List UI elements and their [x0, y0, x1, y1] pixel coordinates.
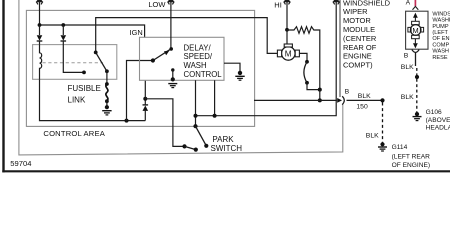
- relay coil: [40, 45, 42, 80]
- park switch blade: [196, 126, 207, 146]
- svg-text:COMPT): COMPT): [343, 61, 373, 70]
- wire: delay box pin down to junction: [144, 80, 146, 99]
- svg-text:B: B: [404, 53, 409, 60]
- connector fork below washer: [412, 50, 419, 66]
- node relay fixed contact: [82, 71, 86, 75]
- wire LOW with arrow: [170, 0, 172, 49]
- node junction dot at x63.3: [61, 23, 65, 27]
- svg-text:HEADLAMP: HEADLAMP: [426, 125, 450, 132]
- wire down to B wire: [319, 90, 321, 101]
- node relay common: [94, 51, 98, 55]
- ground G114: [380, 142, 384, 146]
- delay switch blade with arrow: [153, 49, 171, 60]
- svg-text:RESE: RESE: [432, 55, 448, 61]
- wire: coil bottom down, across to diode branch: [40, 79, 146, 120]
- wire: relay common up and over to motor: [96, 18, 278, 54]
- node resistor/park junction: [318, 88, 322, 92]
- svg-text:CONTROL: CONTROL: [184, 70, 223, 79]
- svg-text:MOTOR: MOTOR: [343, 16, 371, 25]
- wire: park run to module arrow: [196, 0, 337, 116]
- svg-text:(ABOVE LE: (ABOVE LE: [426, 117, 450, 124]
- relay box: [33, 45, 117, 80]
- label WINDSHIELD WIPER MOTOR MODULE: [343, 0, 391, 70]
- svg-text:DELAY/: DELAY/: [184, 43, 212, 52]
- svg-text:REAR OF: REAR OF: [343, 43, 377, 52]
- park switch feed wires from delay box: [195, 80, 197, 126]
- svg-text:HI: HI: [274, 1, 282, 10]
- ground G106: [415, 112, 419, 116]
- ground below fusible link: [106, 101, 108, 107]
- node HI junction: [285, 28, 289, 32]
- connector symbol: [342, 96, 344, 105]
- svg-text:WIPER: WIPER: [343, 7, 368, 16]
- park resting contact link: [185, 146, 196, 149]
- svg-text:WASH: WASH: [432, 49, 449, 55]
- module text separator line: [339, 0, 341, 97]
- wire: bus to IGN corner into delay box: [40, 25, 145, 38]
- svg-text:PUMP: PUMP: [432, 24, 448, 30]
- outer gray box CONTROL AREA boundary: [19, 0, 343, 155]
- wire B exits module: [254, 99, 337, 101]
- node park wire junction 1: [194, 114, 198, 118]
- svg-text:150: 150: [356, 104, 368, 111]
- node park wire junction 2: [213, 114, 217, 118]
- svg-text:SWITCH: SWITCH: [211, 144, 243, 153]
- node park switch pivot: [193, 124, 197, 128]
- relay switch blade: [96, 52, 107, 71]
- svg-text:BLK: BLK: [401, 64, 414, 71]
- page bottom border bar: [2, 170, 450, 172]
- svg-text:LOW: LOW: [148, 0, 166, 9]
- resistor: [287, 27, 320, 90]
- svg-text:(CENTER: (CENTER: [343, 34, 377, 43]
- diode D2 (anode top): [62, 25, 64, 35]
- node delay switch upper contact: [169, 47, 173, 51]
- label WINDSHIELD WASHER PUMP (right column): [432, 11, 450, 60]
- red wire stub: [414, 0, 416, 6]
- dashed wire down to G114: [382, 103, 384, 143]
- node park blade end: [204, 144, 208, 148]
- svg-text:MODULE: MODULE: [343, 25, 375, 34]
- wire: feed bus with arrow up (left): [39, 0, 41, 25]
- park switch arc in motor: [305, 60, 309, 64]
- svg-text:M: M: [412, 26, 418, 35]
- node splice on washer ground wire: [415, 75, 419, 79]
- relay mechanical dashed link: [43, 62, 104, 64]
- wire: delay switch pivot to junction: [127, 61, 153, 121]
- ground inside delay box: [172, 70, 174, 79]
- node park contact B: [194, 148, 198, 152]
- svg-text:59704: 59704: [10, 159, 31, 168]
- svg-text:OF ENGINE): OF ENGINE): [392, 162, 430, 169]
- wire arc bottom to resistor leg: [307, 83, 320, 90]
- svg-text:A: A: [406, 0, 411, 7]
- washer internal wire up arrow: [414, 17, 416, 21]
- inner gray box control module boundary: [26, 10, 254, 126]
- delay/speed/wash control box: [140, 37, 225, 80]
- fusible link: [105, 82, 109, 86]
- svg-text:BLK: BLK: [401, 94, 414, 101]
- svg-text:G106: G106: [426, 109, 442, 116]
- wire: delay box right to ground: [224, 63, 240, 73]
- ground right of delay box: [238, 71, 242, 75]
- diode D1 (anode top): [39, 25, 41, 35]
- svg-text:BLK: BLK: [366, 132, 379, 139]
- svg-text:WASHER: WASHER: [432, 18, 450, 24]
- wire HI with arrow: [286, 0, 288, 44]
- washer motor M: [412, 21, 420, 24]
- svg-text:(LEFT REAR: (LEFT REAR: [392, 153, 431, 160]
- svg-text:COMP: COMP: [432, 42, 449, 48]
- node B wire junction: [318, 98, 322, 102]
- washer pump box: [406, 11, 428, 49]
- svg-text:(LEFT: (LEFT: [432, 30, 448, 36]
- svg-text:IGN: IGN: [130, 28, 143, 37]
- svg-text:FUSIBLE: FUSIBLE: [68, 84, 101, 93]
- diode D3 (pointing up): [144, 111, 146, 121]
- connector chevron at washer terminal A: [413, 6, 419, 9]
- svg-text:LINK: LINK: [68, 96, 86, 105]
- arrow head right at module boundary: [337, 98, 342, 103]
- node relay contact to fusible link: [105, 69, 109, 73]
- svg-text:OF EN: OF EN: [432, 36, 449, 42]
- wire from connector to splice: [347, 99, 383, 101]
- arrow head (cut wire up): [36, 0, 43, 2]
- wire: contact down to fusible link: [106, 71, 108, 84]
- wire: D2 cathode to relay contact: [63, 41, 84, 72]
- page left border bar: [2, 0, 4, 172]
- node park contact A: [182, 144, 186, 148]
- svg-text:CONTROL AREA: CONTROL AREA: [43, 129, 105, 138]
- svg-text:BLK: BLK: [358, 93, 371, 100]
- node delay switch pivot: [151, 58, 155, 62]
- wire motor right tab to park arc: [299, 53, 307, 61]
- svg-text:G114: G114: [392, 144, 408, 151]
- svg-text:WASH: WASH: [184, 61, 207, 70]
- node junction under delay box: [143, 97, 147, 101]
- svg-text:M: M: [285, 50, 292, 59]
- node splice: [380, 98, 384, 102]
- node junction dot at x39.5: [38, 23, 42, 27]
- wiper motor M: [282, 47, 296, 61]
- dashed wire to G106: [416, 68, 418, 113]
- svg-text:PARK: PARK: [212, 135, 234, 144]
- svg-text:B: B: [345, 89, 350, 96]
- wire: junction right and down to park contact: [145, 99, 184, 147]
- svg-text:SPEED/: SPEED/: [184, 52, 213, 61]
- node delay switch lower contact: [171, 68, 174, 71]
- svg-text:ENGINE: ENGINE: [343, 52, 372, 61]
- washer internal wire down arrow: [414, 39, 416, 44]
- node junction with delay pivot wire: [125, 119, 129, 123]
- svg-text:WINDSHIELD: WINDSHIELD: [432, 11, 450, 17]
